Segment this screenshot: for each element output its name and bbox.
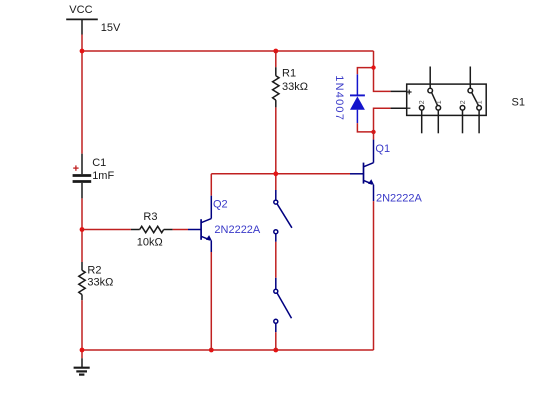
wire VCC stem to top rail (red) xyxy=(81,35,83,154)
svg-text:Q1: Q1 xyxy=(375,143,390,155)
relay pole 1 contact 2 xyxy=(419,106,424,111)
svg-text:10kΩ: 10kΩ xyxy=(137,236,163,248)
node junction at (211.3,350) xyxy=(209,348,214,353)
relay pole 1 top pin xyxy=(429,67,431,89)
wire top rail horizontal xyxy=(82,50,374,52)
svg-text:2N2222A: 2N2222A xyxy=(376,192,423,204)
ground xyxy=(74,358,90,374)
svg-text:C1: C1 xyxy=(92,157,106,169)
svg-text:1: 1 xyxy=(477,100,484,104)
svg-text:2N2222A: 2N2222A xyxy=(214,224,261,236)
wire lower switch to bottom rail (red) xyxy=(275,332,277,350)
svg-text:2: 2 xyxy=(460,100,467,104)
wire top rail corner down to relay + (red) xyxy=(374,51,391,91)
svg-text:15V: 15V xyxy=(101,22,121,34)
svg-text:VCC: VCC xyxy=(69,4,92,16)
relay plus mark xyxy=(407,90,412,95)
wire R1 top lead (red) xyxy=(275,51,277,67)
relay minus mark xyxy=(407,107,410,109)
transistor Q1 xyxy=(350,140,374,202)
svg-text:R3: R3 xyxy=(143,211,157,223)
svg-text:Q2: Q2 xyxy=(213,199,228,211)
node junction at (275.8,173.8) xyxy=(273,171,278,176)
relay pole 2 contact 1 xyxy=(477,106,482,111)
relay pole 1 bottom pins xyxy=(422,110,439,133)
relay pole 2 blade xyxy=(472,93,479,106)
wire diode top branch (red) xyxy=(357,68,373,75)
node junction at (82,229.5) xyxy=(80,227,85,232)
wire Q2 collector drop (red) xyxy=(210,174,212,196)
resistor R3 xyxy=(131,226,173,232)
diode D1 1N4007 xyxy=(350,74,365,123)
svg-text:33kΩ: 33kΩ xyxy=(282,81,308,93)
relay pole 2 bottom pins xyxy=(463,110,480,133)
wire bottom rail horizontal xyxy=(82,349,374,351)
relay pole 1 contact 1 xyxy=(436,106,441,111)
relay S1 body xyxy=(407,84,487,115)
wire Q2 emitter to bottom rail (red) xyxy=(210,252,212,350)
svg-text:33kΩ: 33kΩ xyxy=(87,277,113,289)
svg-text:R1: R1 xyxy=(282,67,296,79)
node junction at (275.8,350) xyxy=(273,348,278,353)
resistor R1 xyxy=(273,67,279,107)
svg-text:1mF: 1mF xyxy=(92,170,114,182)
svg-text:R2: R2 xyxy=(87,264,101,276)
wire diode bottom branch (red) xyxy=(357,123,373,132)
svg-text:2: 2 xyxy=(419,100,426,104)
wire mid horizontal Q2 collector to Q1 base (red) xyxy=(211,173,350,175)
switch S3 bottom xyxy=(274,278,292,332)
wire R2 to bottom rail (red) xyxy=(81,300,83,358)
VCC power symbol xyxy=(66,19,98,34)
capacitor C1 xyxy=(73,154,92,199)
wire R3 right to Q2 base (red) xyxy=(173,229,188,231)
relay pole 1 common contact xyxy=(428,88,433,93)
node junction at (373.5,131.9) xyxy=(371,130,375,134)
relay pole 2 common contact xyxy=(468,88,473,93)
C1 plus polarity mark xyxy=(73,165,78,170)
svg-text:1: 1 xyxy=(436,100,443,104)
relay S1 coil stubs (black) xyxy=(391,91,407,108)
switch S2 top xyxy=(274,190,292,242)
svg-text:S1: S1 xyxy=(512,96,525,108)
wire relay minus to Q1 collector (red) xyxy=(374,108,391,139)
wire Q1 emitter down right side (red) xyxy=(373,201,375,350)
node junction at (82,51) xyxy=(80,49,85,54)
relay pole 2 top pin xyxy=(469,67,471,89)
wire between switches (red) xyxy=(275,242,277,278)
svg-text:1N4007: 1N4007 xyxy=(333,75,345,121)
relay pole 1 blade xyxy=(432,93,438,106)
wire R1 bottom to mid rail (red) xyxy=(275,107,277,190)
wire R3 left (red) xyxy=(82,229,131,231)
resistor R2 xyxy=(79,262,85,300)
wire left rail below C1 (red) xyxy=(81,198,83,262)
node junction at (275.8,51) xyxy=(273,49,278,54)
node junction at (373.5,67.6) xyxy=(371,65,375,69)
relay pole 2 contact 2 xyxy=(460,106,465,111)
transistor Q2 xyxy=(188,196,212,252)
node junction at (82,350) xyxy=(80,348,85,353)
